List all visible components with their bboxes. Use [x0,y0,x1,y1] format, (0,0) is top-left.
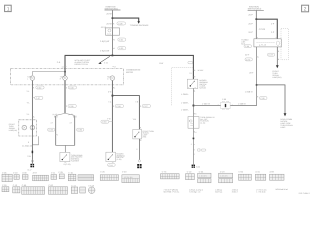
wire branch from lamp box right [32,136,38,145]
svg-text:C-72: C-72 [269,54,273,57]
svg-text:TOWING PACKAGE: TOWING PACKAGE [130,24,149,27]
svg-text:20-F: 20-F [248,31,253,34]
svg-text:(C-54): (C-54) [116,158,121,161]
connector C-10b table [186,174,195,180]
connector A-09 table [270,174,285,180]
pin tick above right switch [139,127,141,129]
splice thick mark [31,151,33,154]
wire center drop [64,145,66,152]
connector oval C-28 [117,22,126,25]
connector C-90 table [22,187,45,194]
pin tick bus2 lowest [193,153,195,155]
pin tick below hazard switch [112,161,114,163]
connector C-22 table [198,173,211,178]
connector C-13 table [13,187,20,193]
svg-text:2: 2 [194,75,195,78]
pin tick below right switch [139,139,141,141]
label front turn signal lamp [9,123,18,132]
svg-text:1: 1 [232,104,233,107]
svg-text:20-F: 20-F [248,14,253,17]
svg-text:1-A: 1-A [104,62,108,65]
svg-text:C2123: C2123 [259,28,266,31]
svg-text:8: 8 [28,141,29,144]
pin tick 14 left drop [65,66,67,68]
svg-text:2-G: 2-G [108,90,112,93]
svg-text:20-F: 20-F [249,71,254,74]
svg-text:C-37: C-37 [36,97,40,100]
svg-text:W-XXX: W-XXX [198,69,205,72]
connector C-17 table [71,187,77,193]
bulb B front lamp [30,125,35,130]
connector F-25 table [59,174,64,179]
inline connector box [218,101,233,109]
pin tick bus2 [193,75,195,77]
svg-text:3: 3 [140,139,141,142]
header label left feed [105,5,119,10]
connector oval C-31 [118,38,126,42]
arrowhead right branch [284,113,287,116]
wire: main trunk horizontal [65,54,194,56]
svg-text:1: 1 [113,23,114,26]
svg-text:4: 4 [114,39,115,42]
connector C-15 table [68,174,76,181]
svg-text:(RH): (RH) [143,136,147,139]
flasher label [200,116,215,125]
ring terminal right col [138,160,140,162]
svg-text:2: 2 [191,143,192,146]
text block rear lamps [280,118,293,129]
svg-text:1 2 3 4 5: 1 2 3 4 5 [199,174,206,177]
wire link to right structure [193,105,256,107]
svg-text:1: 1 [66,86,67,89]
connector oval C-30 left [36,86,44,89]
column switch dashed boundary [171,68,192,106]
svg-text:(C-35)(C-36): (C-35)(C-36) [22,145,33,148]
svg-text:FLASHER: FLASHER [71,160,80,163]
theft alarm note text [75,59,92,66]
svg-text:1-25B-G: 1-25B-G [245,90,253,93]
connector oval C-37 left [32,96,42,99]
inline diode icon [193,149,206,151]
node right T junction [256,84,258,86]
pin tick legs [56,134,58,136]
svg-text:C-36: C-36 [78,129,82,132]
svg-text:14 J: 14 J [107,32,111,35]
svg-text:C-26: C-26 [116,105,120,108]
svg-text:8-W: 8-W [159,62,163,65]
wire left leg [55,116,57,146]
connector oval right of wire [259,97,267,100]
wire lamp L down [31,81,33,164]
header label right feed [248,5,262,10]
indicator lamp L [27,76,35,81]
svg-text:2: 2 [304,7,307,13]
connector table row2 [2,187,95,194]
ground splice left [30,164,34,168]
pin tick hazard col [112,105,114,107]
svg-text:4: 4 [278,50,279,53]
svg-text:50-YR26 : P-31 ea: 50-YR26 : P-31 ea [164,191,181,194]
svg-text:CT-10: CT-10 [88,184,94,187]
label combination meter [126,69,141,74]
hazard switch label [199,79,208,90]
svg-text:14: 14 [194,131,196,134]
svg-text:C-27: C-27 [143,105,147,108]
pin tick 4b [112,47,114,49]
ground splice bus2 [192,165,195,168]
page ref box 2 [302,5,309,12]
connector oval on bus2 [188,61,193,63]
svg-text:1-A(G)-W: 1-A(G)-W [100,49,110,52]
fork split wires [56,113,75,115]
svg-text:5: 5 [194,69,195,72]
svg-text:1: 1 [113,105,114,108]
svg-text:LAMP(RH): LAMP(RH) [272,76,281,79]
svg-text:C-88: C-88 [222,98,226,101]
connector C-92 table [48,187,67,194]
svg-text:METER: METER [126,71,134,74]
switch box right col [133,129,142,139]
pin tick lamp box entry [32,116,34,118]
connector oval C-30 mid [68,86,76,89]
indicator lamp R [60,76,68,81]
wire arrow right col short [276,47,278,66]
connector oval below hazard switch [108,164,116,167]
ground splice right col [137,164,141,168]
wire: branch to towing arrow [112,18,138,22]
text block front fog [272,70,281,79]
svg-text:7-3 B 3gr : wt: 7-3 B 3gr : wt [189,191,201,194]
svg-text:C-69: C-69 [245,45,249,48]
svg-text:3r-2w f: 3r-2w f [232,191,238,194]
pin tick lamp L exit [32,86,34,88]
svg-text:L-25W-L: L-25W-L [181,102,190,105]
node right junction [255,18,257,20]
svg-text:d 7: d 7 [70,122,72,125]
connector CT-10 round table [88,187,95,194]
connector C-20 table [100,175,118,181]
remark notes bottom [164,188,289,194]
dashed box right edge [281,28,288,60]
svg-text:C-54: C-54 [109,164,113,167]
svg-text:20-F: 20-F [245,54,250,57]
svg-text:d 7: d 7 [51,122,53,125]
wire right structure main [255,11,257,39]
svg-text:C-28: C-28 [260,97,264,100]
page ref box 1 [5,5,12,12]
svg-text:4: 4 [114,47,115,50]
connector C-30 table [2,187,9,192]
header underline left [105,9,121,11]
svg-text:C-31: C-31 [119,39,123,42]
wire right leg [74,116,76,146]
svg-text:1: 1 [7,6,10,12]
pin tick 24 [193,112,195,114]
svg-text:6: 6 [258,56,259,59]
inline terminal marks left leg [54,116,57,118]
hazard switch box [187,79,198,89]
connector oval C-26 [68,105,76,108]
svg-text:SYS-TURN-2: SYS-TURN-2 [299,192,310,195]
connector C-19 table [219,173,233,178]
connector row1 labels [2,170,275,174]
pin tick below hazard box [193,90,195,92]
svg-text:2-A: 2-A [57,61,61,64]
wire: top bus from header [111,10,113,55]
connector C-06 table [239,174,252,180]
combination meter dashed box [11,68,124,85]
svg-text:C-30: C-30 [69,86,73,89]
svg-text:1: 1 [66,105,67,108]
wire: internal lamp feed [32,72,65,76]
connector oval left wire [245,58,252,61]
svg-text:(C-10): (C-10) [200,122,205,125]
connector A-07 table [33,175,49,181]
svg-text:Y-G: Y-G [107,117,111,120]
svg-text:1 / T2-2-4n: 1 / T2-2-4n [256,191,265,194]
pin ticks into relay box [256,36,258,38]
wire lamp R down [64,81,66,114]
wire L to right column [112,96,139,130]
wire bus2 mid [192,88,194,164]
switch label hazard bottom [116,152,125,161]
connector oval arrow col [268,53,275,56]
wire: left thick drop [64,55,66,76]
svg-text:4: 4 [278,58,279,61]
node trunk lower junction [112,95,114,97]
svg-text:C-33: C-33 [119,47,123,50]
arrowhead short [276,65,279,68]
pin tick 4 [112,39,114,41]
connector C-73 table [161,174,180,179]
pin tick bus2 top [193,69,195,71]
pin tick and connector C-28 [112,23,114,25]
connector oval right of right leg [77,128,84,131]
connector C-05 table [2,174,12,181]
pin tick 14 [193,131,195,133]
node junction top [112,17,114,19]
theft alarm note arrow [98,56,110,64]
pin tick below relay [257,56,259,58]
connector oval left of left leg [48,128,55,131]
connector A-30 table [22,175,28,180]
pin tick bus2 lower [193,143,195,145]
svg-text:WR-Mud W-srl: WR-Mud W-srl [276,188,289,191]
svg-text:C-28: C-28 [118,22,122,25]
svg-text:B-32: B-32 [196,166,200,169]
svg-text:L-25W-L: L-25W-L [181,108,190,111]
svg-text:11: 11 [113,86,115,89]
flasher unit box [188,117,199,129]
arrowhead towing [137,21,140,24]
connector row2 labels [2,184,95,187]
wire U bottom [56,144,75,146]
inline terminal marks right leg [73,116,76,118]
svg-text:B4-Tnac: B4-Tnac [215,191,222,194]
connector table row1 [2,173,284,183]
svg-text:2: 2 [218,104,219,107]
indicator lamp hazard [107,76,115,81]
switch box hazard col bottom [106,152,116,161]
pin tick arrow col b [277,58,279,60]
relay box right [254,39,281,47]
pin tick under switch [64,161,66,163]
svg-text:C-72: C-72 [246,58,250,61]
svg-text:L-25W-L: L-25W-L [181,93,190,96]
svg-text:1: 1 [140,105,141,108]
svg-text:C-33: C-33 [102,121,106,124]
wire below relay box left [256,47,258,106]
connector C-10 table [14,175,19,180]
svg-text:J/C(4): J/C(4) [101,26,107,29]
ring terminal left [31,160,33,162]
connector C-23 table [122,175,139,183]
svg-text:1: 1 [33,86,34,89]
connector oval C-33 [118,47,126,51]
svg-text:1-25C-G: 1-25C-G [202,103,210,106]
pin tick bottom right col [257,95,259,97]
connector C-25 table [78,175,94,181]
svg-text:1: 1 [57,134,58,137]
svg-text:C-30: C-30 [37,86,41,89]
connector oval under left label [244,45,252,48]
wire right col lower [138,139,140,160]
svg-text:1-25B-G: 1-25B-G [238,103,246,106]
connector C-11 table [51,175,57,180]
svg-text:NATION: NATION [199,87,206,90]
wire arrow branch right [257,85,285,114]
switch box front lamps [60,152,70,161]
wire right thick L [256,19,277,39]
svg-text:1: 1 [257,95,258,98]
front turn lamp LH dashed box [19,120,37,136]
node bus2 dot lower [193,138,195,140]
svg-text:1: 1 [140,127,141,130]
switch label front [71,154,83,163]
pin tick R column [65,105,67,107]
svg-text:1: 1 [194,90,195,93]
relay box left label [241,39,249,46]
svg-text:LAMP: LAMP [280,126,286,129]
node internal junction [64,71,66,73]
header underline right [248,9,264,11]
connector oval C-27 [142,105,150,108]
node trunk-bus junction [112,55,114,57]
svg-text:1-A(G)-W: 1-A(G)-W [100,40,110,43]
svg-text:REFER TO P.54: REFER TO P.54 [75,63,88,66]
connector C-18 table [80,187,86,193]
svg-text:L: L [27,77,28,80]
pin tick right col [139,105,141,107]
wire: bus2 thick drop [192,55,194,79]
connector oval left hazard col [101,120,113,123]
svg-text:SWITCH(IG2): SWITCH(IG2) [248,8,262,11]
svg-text:C-26: C-26 [69,105,73,108]
svg-text:1 2 3 4 5: 1 2 3 4 5 [220,174,227,177]
svg-text:20-F: 20-F [248,23,253,26]
svg-text:2: 2 [136,148,137,151]
pin tick lamp R exit [65,86,67,88]
svg-text:7: 7 [112,29,113,32]
bulb A front lamp [22,125,27,130]
wire hazard lamp down [111,81,113,153]
svg-text:1 2 3 4 5 6: 1 2 3 4 5 6 [124,176,133,179]
svg-text:LAMP(LH): LAMP(LH) [9,129,18,132]
pin tick 17 [112,66,114,68]
node bus2 junction [193,105,195,107]
junction block J/C [106,28,120,35]
svg-text:24: 24 [194,112,196,115]
svg-text:8 (C-52): 8 (C-52) [64,163,71,166]
connector oval C-26b [115,105,123,108]
svg-text:▲ FL-15: ▲ FL-15 [259,44,266,47]
switch label right col [143,130,155,139]
svg-text:B-17: B-17 [28,168,32,171]
connector A-31 table [255,174,265,180]
pin tick hazard exit [112,86,114,88]
pin tick arrow col a [277,50,279,52]
svg-text:2: 2 [33,116,34,119]
